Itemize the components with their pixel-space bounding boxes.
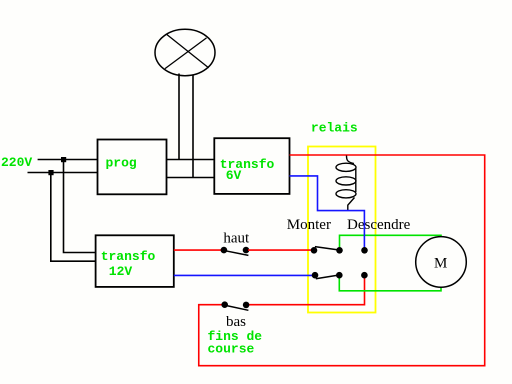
box prog U1: [98, 140, 167, 195]
wire red 12V to haut: [174, 249, 222, 251]
svg-text:Descendre: Descendre: [347, 217, 411, 233]
motor M1: [416, 237, 467, 288]
relay contact row2 right: [361, 272, 368, 279]
wire blue 6V to relay contact: [290, 176, 365, 248]
svg-text:transfo: transfo: [101, 249, 156, 264]
svg-text:220V: 220V: [1, 155, 32, 170]
svg-text:prog: prog: [106, 155, 137, 170]
wire lamp lead right: [192, 75, 194, 178]
wire green relay to motor bottom: [339, 276, 441, 291]
relay contact row1 middle: [336, 247, 343, 254]
relay coil K1: [336, 156, 356, 211]
wire red bas to relay contact: [247, 277, 365, 305]
relay contact row1 left: [311, 247, 318, 254]
switch haut S2: [221, 247, 250, 256]
wire red 6V loop: [199, 155, 485, 366]
wire prog to transfo6V top: [167, 159, 215, 161]
relay outline (yellow): [308, 147, 376, 313]
wire blue 12V to relay: [174, 274, 315, 276]
relay contact row1 right: [361, 247, 368, 254]
svg-text:6V: 6V: [226, 168, 242, 183]
relay contact row2 left: [312, 272, 319, 279]
svg-text:12V: 12V: [109, 264, 133, 279]
svg-text:haut: haut: [223, 230, 250, 246]
wire green relay to motor top: [340, 235, 442, 250]
wire prog to transfo6V bottom: [167, 177, 215, 179]
wire lamp lead left: [178, 74, 180, 160]
relay blade row2: [316, 275, 338, 279]
box transfo 6V T1: [214, 138, 289, 194]
relay contact row2 middle: [336, 272, 343, 279]
wire J2 to transfo 12V: [51, 175, 96, 261]
node junction J1: [61, 157, 66, 162]
node junction J2: [48, 170, 53, 175]
wire red haut to relay: [248, 249, 314, 251]
wire J1 to transfo 12V: [64, 162, 96, 253]
lamp L1: [155, 29, 215, 75]
wire 220V phase: [38, 159, 98, 161]
svg-text:course: course: [208, 341, 255, 356]
svg-text:M: M: [434, 255, 447, 271]
svg-text:Monter: Monter: [287, 217, 331, 233]
switch bas S3: [221, 301, 249, 310]
relay blade row1: [315, 247, 339, 250]
svg-text:relais: relais: [311, 120, 358, 135]
wire 220V neutral: [28, 172, 98, 174]
box transfo 12V T2: [96, 235, 174, 287]
svg-text:bas: bas: [226, 314, 246, 330]
